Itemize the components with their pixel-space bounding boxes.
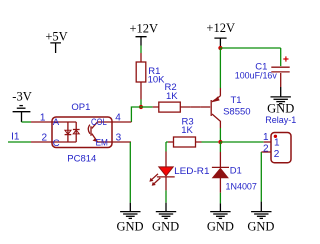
- capacitor C1: [235, 48, 290, 87]
- wire node to D1: [219, 142, 221, 152]
- power +5V: [45, 29, 67, 53]
- ground G4: [247, 202, 274, 234]
- svg-text:4: 4: [115, 112, 121, 123]
- svg-text:COL: COL: [91, 117, 107, 128]
- diode D1: [212, 152, 257, 193]
- OP1 internal LED 1: [65, 130, 72, 134]
- svg-text:GND: GND: [116, 220, 143, 234]
- svg-text:1: 1: [263, 132, 269, 143]
- svg-text:3: 3: [116, 132, 122, 143]
- wire node to relay pin 1: [220, 141, 263, 143]
- OP1 internal LED 2: [73, 130, 80, 134]
- wire +12V to R1: [140, 46, 142, 54]
- svg-text:GND: GND: [267, 102, 294, 116]
- svg-text:PC814: PC814: [67, 154, 96, 165]
- OP1 phototransistor: [88, 122, 112, 142]
- ground G1: [116, 203, 143, 234]
- svg-text:10K: 10K: [148, 75, 166, 86]
- resistor R2: [153, 82, 191, 112]
- LED LED-R1: [149, 152, 209, 191]
- transistor T1: [200, 88, 250, 128]
- Relay-1 pin 1: [264, 141, 271, 143]
- svg-text:1: 1: [274, 138, 280, 149]
- OP1 pin 3: [112, 141, 131, 143]
- wire R3 to LED-R1: [166, 142, 168, 152]
- ground G2: [152, 203, 179, 234]
- wire -3V to OP1 pin 1: [22, 121, 32, 123]
- wire +12V node to C1: [220, 47, 280, 49]
- power +12V rail 1: [130, 21, 159, 45]
- svg-text:OP1: OP1: [71, 102, 90, 113]
- svg-text:2: 2: [263, 143, 269, 154]
- power -3V: [12, 89, 31, 122]
- svg-text:A: A: [53, 117, 60, 128]
- resistor R1: [136, 53, 165, 100]
- OP1 pin 2: [31, 141, 76, 143]
- svg-text:1K: 1K: [181, 125, 193, 136]
- wire OP1 pin 3 to ground: [129, 142, 131, 203]
- ground G3: [207, 203, 234, 233]
- svg-text:EM: EM: [96, 137, 108, 148]
- wire node to OP1 pin 4: [131, 107, 141, 122]
- wire relay pin 2 to ground: [260, 152, 262, 202]
- svg-text:Relay-1: Relay-1: [265, 115, 296, 126]
- svg-text:1: 1: [40, 112, 46, 123]
- svg-text:GND: GND: [152, 220, 179, 234]
- ground G5 under C1: [267, 87, 294, 116]
- OP1 internal LED rails: [68, 122, 76, 142]
- connector Relay-1: [265, 115, 296, 163]
- svg-text:2: 2: [274, 149, 280, 160]
- wire D1 to ground: [219, 193, 221, 204]
- wire T1 collector to node: [219, 128, 221, 140]
- svg-text:100uF/16v: 100uF/16v: [235, 71, 277, 82]
- wire LED-R1 to ground: [165, 190, 167, 202]
- optocoupler OP1: [52, 102, 112, 165]
- svg-text:S8550: S8550: [223, 107, 250, 118]
- svg-text:+5V: +5V: [45, 29, 67, 43]
- svg-text:2: 2: [41, 132, 47, 143]
- node junction +12V/C1/T1: [218, 46, 222, 50]
- svg-text:+12V: +12V: [130, 21, 159, 35]
- wire +12V node to T1 emitter: [219, 48, 221, 88]
- Relay-1 pin 2: [261, 151, 271, 153]
- wire R1 to node: [140, 100, 142, 108]
- svg-text:D1: D1: [230, 166, 242, 177]
- wire I1 to OP1 pin 2: [8, 141, 31, 143]
- svg-text:GND: GND: [247, 220, 274, 234]
- power +12V rail 2: [206, 21, 235, 46]
- svg-text:-3V: -3V: [12, 89, 31, 103]
- wire node to R2: [141, 106, 153, 108]
- svg-text:LED-R1: LED-R1: [174, 166, 209, 177]
- node junction R1/R2/OP1: [139, 105, 143, 109]
- svg-text:+12V: +12V: [206, 21, 235, 35]
- svg-text:T1: T1: [231, 95, 242, 106]
- svg-text:1N4007: 1N4007: [226, 182, 257, 193]
- OP1 pin 4: [112, 121, 131, 123]
- resistor R3: [168, 117, 202, 147]
- svg-text:C: C: [53, 138, 60, 149]
- svg-text:1K: 1K: [166, 91, 178, 102]
- wire R3 to collector node: [202, 141, 219, 143]
- svg-text:GND: GND: [207, 220, 234, 234]
- OP1 pin 1: [31, 121, 76, 123]
- wire R2 to T1 base: [190, 106, 200, 108]
- node junction collector/R3/D1/relay: [218, 140, 222, 144]
- svg-text:I1: I1: [11, 131, 20, 142]
